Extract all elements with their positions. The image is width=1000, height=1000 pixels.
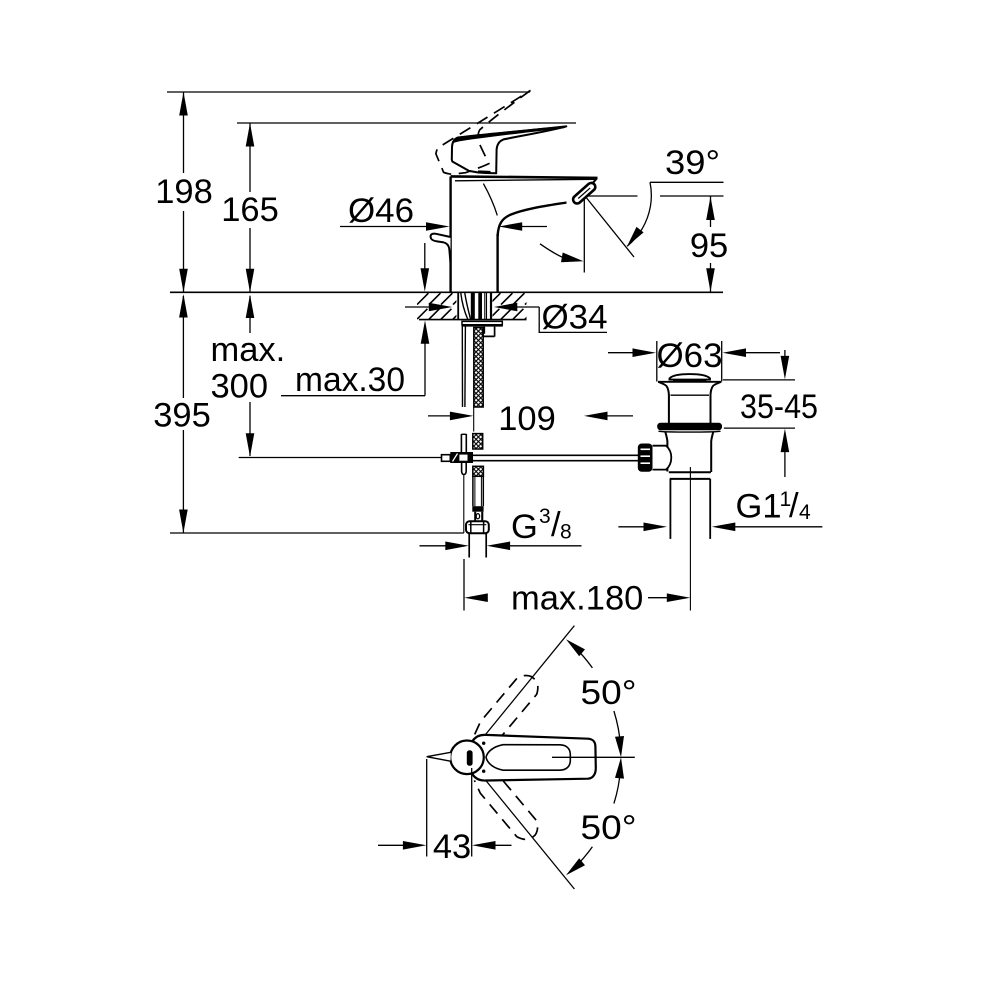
arrow G38 right bbox=[487, 542, 511, 551]
dimension 46 lines bbox=[340, 226, 432, 228]
shank left wall bbox=[457, 293, 459, 320]
svg-text:109: 109 bbox=[498, 400, 556, 438]
dimension 395 vertical line bbox=[182, 296, 184, 398]
svg-text:8: 8 bbox=[560, 521, 572, 544]
arrow max300 top bbox=[246, 295, 255, 319]
handle open position dashed lower bbox=[474, 769, 537, 840]
rod clamp block bbox=[450, 452, 473, 463]
handle top dark tapering band bbox=[454, 127, 564, 143]
50deg arc upper bbox=[574, 647, 592, 668]
dimension 198 vertical line bbox=[183, 92, 185, 173]
spout wedge lower line bbox=[455, 179, 595, 181]
knob connector piece bbox=[653, 446, 672, 470]
arrow 395 top bbox=[179, 294, 188, 318]
svg-text:198: 198 bbox=[155, 173, 213, 211]
svg-text:G: G bbox=[511, 508, 538, 546]
braided hose short piece below rod bbox=[473, 466, 484, 476]
svg-text:95: 95 bbox=[690, 227, 728, 265]
arrow arc lower top bbox=[615, 757, 624, 778]
handle base dark notch bbox=[478, 170, 491, 174]
shank inner line pair bbox=[484, 293, 486, 320]
svg-text:43: 43 bbox=[433, 828, 471, 866]
valve lower joint bbox=[669, 471, 711, 473]
valve body below seal bbox=[665, 432, 667, 472]
dimension 109 bbox=[428, 415, 452, 417]
arrow G114 right bbox=[712, 523, 736, 532]
arrow 35-45 up bbox=[781, 429, 790, 453]
handle lever open position (dashed) bbox=[436, 90, 531, 174]
dimension d63 extension lines bbox=[656, 341, 658, 382]
dimension 34 lines bbox=[405, 306, 430, 308]
svg-text:35-45: 35-45 bbox=[740, 388, 818, 426]
50deg line lower bbox=[478, 771, 575, 890]
extension line top of closed handle (165 ref) bbox=[237, 122, 576, 124]
svg-text:Ø34: Ø34 bbox=[542, 299, 608, 337]
arrow max30 up bbox=[421, 320, 430, 344]
spout flow swivel arc arrow bbox=[540, 244, 566, 259]
35-45 reference lines bbox=[723, 379, 795, 381]
horizontal actuating rod left nipple bbox=[442, 455, 451, 462]
tailpipe bbox=[669, 479, 671, 539]
dimension 95 vertical line bbox=[710, 196, 712, 227]
flex hose curve in shank bbox=[461, 293, 468, 319]
svg-text:50°: 50° bbox=[581, 674, 637, 712]
arrow arc upper top bbox=[566, 639, 585, 656]
shank inner tube 1 bbox=[471, 293, 475, 320]
pivot circle bbox=[450, 741, 484, 775]
svg-text:Ø46: Ø46 bbox=[348, 192, 414, 230]
dimension G3/8 bbox=[420, 545, 448, 547]
lever inner contour bbox=[486, 745, 570, 771]
50deg line upper bbox=[478, 626, 575, 745]
arrow 109 right bbox=[584, 412, 608, 421]
hose end ferrule bbox=[472, 506, 483, 512]
pop-up pull rod knob bbox=[431, 234, 451, 263]
svg-text:/: / bbox=[789, 487, 799, 525]
arrow d63 right bbox=[723, 348, 747, 357]
arrow 198 top bbox=[179, 92, 188, 116]
water flow direction line 39deg bbox=[585, 196, 634, 257]
arrow 95 bottom bbox=[706, 268, 715, 292]
spout beak front edge bbox=[591, 178, 597, 185]
43 extension line right bbox=[471, 768, 473, 857]
arrow 165 top bbox=[246, 123, 255, 147]
dimension 43 bbox=[378, 844, 404, 846]
aerator capsule bbox=[571, 181, 597, 205]
43 extension line left bbox=[426, 759, 428, 857]
svg-text:3: 3 bbox=[539, 505, 551, 528]
arrow d46 right bbox=[499, 222, 523, 231]
dimension G1 1/4 bbox=[618, 526, 644, 528]
svg-text:max.30: max.30 bbox=[295, 361, 405, 399]
countertop line bbox=[170, 291, 723, 293]
arrow 95 top bbox=[706, 197, 715, 221]
arrow d34 left bbox=[429, 303, 453, 312]
svg-text:165: 165 bbox=[221, 191, 279, 229]
arrow 39deg arc end bbox=[627, 227, 644, 246]
mounting bracket bbox=[483, 327, 495, 337]
G3/8 connection nut bbox=[466, 521, 489, 533]
arrow max30 down bbox=[421, 268, 430, 292]
horizontal actuating rod bbox=[473, 454, 639, 456]
flexible supply hose braided upper bbox=[474, 328, 483, 408]
svg-text:300: 300 bbox=[211, 368, 269, 406]
svg-text:Ø63: Ø63 bbox=[657, 337, 723, 375]
G3/8 threaded pipe bbox=[468, 533, 470, 557]
spout underside curve bbox=[498, 203, 567, 237]
dimension 165 vertical line bbox=[249, 123, 251, 192]
handle open position dashed upper bbox=[475, 675, 538, 746]
arrow 43 right bbox=[472, 841, 496, 850]
svg-text:4: 4 bbox=[799, 501, 811, 524]
arrow G114 left bbox=[644, 523, 668, 532]
braided hose short piece above rod bbox=[473, 434, 483, 449]
pivot slot bbox=[467, 750, 473, 766]
arrow 198 bottom bbox=[179, 269, 188, 293]
arrow 395 bottom bbox=[179, 510, 188, 534]
dimension max.30 lower arrow line + leader bbox=[424, 342, 426, 396]
pull rod pin upper bbox=[460, 434, 462, 452]
pop-up plug cap bbox=[670, 374, 711, 380]
svg-text:395: 395 bbox=[153, 397, 211, 435]
arrow d63 left bbox=[633, 348, 657, 357]
arrow max300 bottom bbox=[246, 433, 255, 457]
50deg arc lower bbox=[614, 768, 621, 804]
arrow 165 bottom bbox=[246, 269, 255, 293]
arrow d46 left bbox=[426, 222, 450, 231]
mounting flange below counter bbox=[462, 321, 502, 325]
detail dots bbox=[482, 742, 485, 745]
smooth hose section bbox=[472, 476, 474, 506]
arrow 35-45 down bbox=[781, 356, 790, 380]
max180 left extension line bbox=[463, 559, 465, 611]
thin extension to 395 line bbox=[463, 475, 465, 534]
faucet centerline segment bbox=[473, 408, 475, 432]
svg-text:50°: 50° bbox=[581, 809, 637, 847]
arrow max180 left bbox=[464, 593, 488, 602]
svg-text:max.180: max.180 bbox=[511, 580, 643, 618]
counter bottom line bbox=[419, 319, 527, 321]
39deg label reference line bbox=[650, 181, 724, 183]
handle lever (closed position) bbox=[452, 126, 567, 173]
knurled adjuster knob bbox=[638, 444, 653, 472]
dimension max.300 vertical line bbox=[249, 296, 251, 333]
faucet body right edge bbox=[496, 234, 498, 292]
valve flared top bbox=[658, 381, 721, 383]
pointer wedge bbox=[427, 752, 451, 761]
pull rod pin lower bbox=[462, 463, 467, 475]
reference line bottom of 395 bbox=[170, 532, 464, 534]
spout top edge bbox=[451, 176, 598, 178]
shank right wall bbox=[490, 293, 492, 320]
hose nipple bbox=[474, 512, 476, 522]
handle lever top view bbox=[473, 735, 596, 781]
horizontal reference line from spout outlet bbox=[585, 195, 638, 197]
pop-up pull rod (vertical) bbox=[461, 326, 463, 408]
svg-text:39°: 39° bbox=[665, 144, 720, 182]
faucet body left edge bbox=[449, 177, 451, 292]
reference line bottom of max300 bbox=[239, 457, 442, 459]
vertical line below aerator bbox=[583, 196, 585, 273]
arrow d34 right bbox=[494, 303, 518, 312]
valve seal ring bbox=[657, 423, 722, 430]
dimension max.30 upper arrow line bbox=[424, 243, 426, 269]
body inner curve bbox=[483, 184, 497, 216]
centerline through lever bbox=[552, 756, 635, 758]
arrow arc upper bottom bbox=[615, 736, 624, 757]
arrow arc lower bottom bbox=[566, 858, 585, 875]
arrow 109 left bbox=[450, 412, 474, 421]
drain valve centerline bbox=[689, 467, 691, 611]
dimension 35-45 vertical bbox=[784, 350, 786, 357]
extension line top of open handle (198 ref) bbox=[167, 91, 530, 93]
svg-text:G1: G1 bbox=[736, 487, 782, 525]
arrow max180 right bbox=[667, 593, 691, 602]
arrow G38 left bbox=[445, 542, 469, 551]
dimension d63 bbox=[608, 352, 634, 354]
shank inner tube 2 bbox=[478, 293, 482, 320]
svg-text:max.: max. bbox=[211, 331, 286, 369]
leader diameter 34 bbox=[539, 307, 607, 332]
39deg arc bbox=[627, 182, 651, 246]
arrow 43 left bbox=[403, 841, 427, 850]
